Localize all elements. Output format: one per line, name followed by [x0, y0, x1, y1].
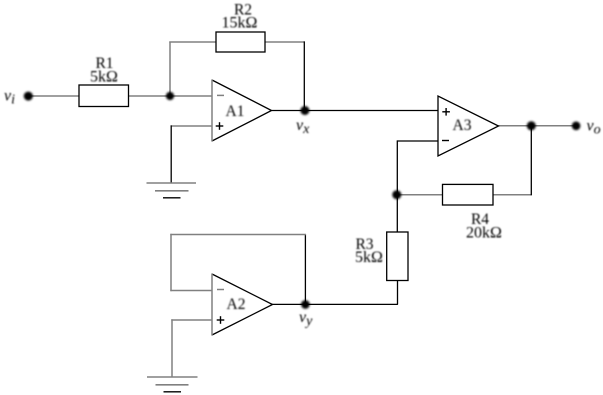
node vo junction dot [527, 121, 536, 130]
output terminal vo dot [572, 122, 581, 131]
svg-text:A3: A3 [453, 117, 472, 134]
op-amp A2 minus sign [217, 289, 224, 291]
wire A2 feedback left vertical [170, 234, 172, 291]
op-amp A3 [438, 96, 499, 156]
wire R1 to A1 inverting input [129, 95, 213, 97]
node vy junction dot [301, 300, 310, 309]
wire node A up to R2 [169, 42, 171, 97]
wire A3 inverting input horizontal [397, 140, 438, 142]
wire R2 down to vx node [303, 41, 305, 110]
wire vy node to R3 [272, 303, 398, 305]
op-amp A3 minus sign [442, 140, 449, 142]
ground G1 top bar [147, 182, 197, 184]
svg-text:5kΩ: 5kΩ [355, 249, 383, 266]
ground G2 bottom bar [164, 391, 182, 393]
node vx junction dot [300, 106, 309, 115]
op-amp A1 [212, 80, 272, 141]
resistor R1 [79, 85, 129, 107]
op-amp A1 plus sign [216, 125, 224, 127]
wire A1 output to A3 noninverting input [272, 110, 439, 112]
wire A2 inverting input [170, 290, 212, 292]
resistor R3 [387, 232, 408, 281]
op-amp A1 minus sign [217, 94, 224, 96]
resistor R4 [443, 184, 494, 205]
wire node B to R4 left [397, 194, 443, 196]
svg-text:5kΩ: 5kΩ [90, 69, 118, 86]
wire vo node down to R4 [530, 126, 532, 196]
op-amp A2 plus sign [217, 319, 225, 321]
wire vi to R1 [28, 95, 79, 97]
ground G2 top bar [147, 376, 198, 378]
wire R4 right [493, 194, 532, 196]
wire R2 right [265, 41, 305, 43]
wire A2 feedback top horizontal [170, 234, 306, 236]
ground G1 bottom bar [163, 197, 181, 199]
ground G2 middle bar [156, 384, 189, 386]
wire to R2 left [169, 41, 216, 43]
input terminal vi [24, 92, 33, 101]
ground G1 middle bar [155, 190, 189, 192]
wire A2 noninverting input [171, 319, 212, 321]
wire down to ground G2 [171, 319, 173, 377]
resistor R2 [216, 32, 265, 52]
op-amp A3 plus sign [442, 111, 450, 113]
svg-text:A2: A2 [227, 296, 246, 313]
wire R3 bottom down [397, 281, 399, 305]
wire A3 output to vo terminal [499, 125, 577, 127]
svg-text:A1: A1 [226, 103, 245, 120]
wire A1 noninverting input [171, 125, 212, 127]
node B junction dot [392, 190, 401, 199]
svg-text:15kΩ: 15kΩ [222, 15, 258, 32]
wire A3 inverting input down to node B [396, 140, 398, 232]
wire down to ground G1 [170, 125, 172, 183]
node A junction dot [166, 92, 174, 100]
wire A2 feedback vertical at vy [304, 234, 306, 304]
svg-text:20kΩ: 20kΩ [466, 225, 502, 242]
op-amp A2 [212, 274, 273, 335]
